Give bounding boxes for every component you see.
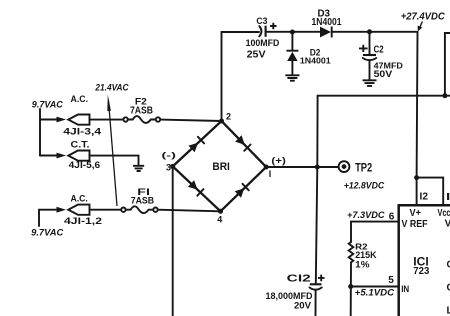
- node at D2: [290, 30, 295, 35]
- svg-text:7ASB: 7ASB: [131, 195, 155, 205]
- svg-text:25V: 25V: [247, 49, 266, 60]
- svg-text:L: L: [447, 305, 450, 316]
- negative bus from node 3 down off page: [172, 166, 174, 316]
- node at C2: [367, 29, 372, 34]
- svg-text:1%: 1%: [355, 260, 370, 271]
- wire C3 to D2 junction: [267, 31, 321, 33]
- node junction at TP2 branch: [315, 165, 320, 170]
- svg-text:100MFD: 100MFD: [246, 38, 280, 48]
- connector C.T. 4J1-5,6: [68, 140, 100, 171]
- wire fuse F1 to bridge node 4: [158, 210, 221, 212]
- wire to C.T. connector with arrow: [40, 153, 66, 159]
- svg-text:4JI-1,2: 4JI-1,2: [64, 216, 102, 226]
- svg-text:V: V: [445, 218, 450, 229]
- node 3: [162, 150, 177, 172]
- svg-text:+12.8VDC: +12.8VDC: [344, 181, 385, 191]
- svg-text:4JI-5,6: 4JI-5,6: [69, 160, 101, 170]
- diode D2 1N4001: [286, 34, 331, 74]
- ground (C2): [363, 80, 377, 86]
- svg-text:(-): (-): [162, 150, 177, 160]
- node 1: [264, 155, 286, 179]
- svg-text:50V: 50V: [374, 69, 393, 79]
- svg-text:II: II: [446, 192, 450, 203]
- capacitor C2 47MFD 50V: [359, 34, 403, 80]
- svg-text:CI2: CI2: [287, 274, 312, 285]
- label 9.7VAC top: [32, 100, 63, 110]
- wire node 2 riser to top rail: [222, 32, 260, 121]
- label +5.1VDC: [355, 288, 395, 299]
- wire connector to fuse F1: [90, 209, 122, 211]
- node at pin 12 branch: [414, 175, 419, 180]
- svg-text:C3: C3: [256, 16, 267, 26]
- svg-text:723: 723: [413, 265, 429, 277]
- wire 12.8V horizontal rail: [318, 95, 450, 97]
- ground (D2): [285, 75, 299, 80]
- svg-text:C2: C2: [374, 45, 384, 56]
- svg-text:+27.4VDC: +27.4VDC: [401, 12, 446, 23]
- svg-text:9.7VAC: 9.7VAC: [32, 100, 63, 110]
- wire pin 11 stub: [417, 178, 450, 205]
- svg-text:BRI: BRI: [212, 161, 230, 173]
- wire vertical from 9.7VAC top: [39, 109, 41, 156]
- svg-text:C: C: [447, 282, 450, 293]
- svg-text:C: C: [447, 260, 450, 271]
- svg-text:A.C.: A.C.: [71, 193, 88, 204]
- diode D3 1N4001: [312, 8, 343, 37]
- IC U1 box (IC1 723): [398, 204, 450, 316]
- wire R2 to pin 5 node: [350, 262, 352, 316]
- bridge diode arm 3-2: [188, 137, 204, 152]
- svg-text:IN: IN: [401, 284, 409, 295]
- node 4: [217, 209, 223, 225]
- wire fuse F2 to bridge node 2: [160, 120, 221, 121]
- capacitor C12 18,000MFD 20V: [266, 274, 325, 316]
- ground (C.T.): [133, 166, 144, 171]
- wire 12.8V rail down to C12: [316, 96, 318, 284]
- svg-text:1N4001: 1N4001: [312, 17, 343, 28]
- fuse F2 7ASB: [123, 96, 160, 123]
- wire C.T. to ground: [90, 156, 139, 165]
- wire to A.C. connector with arrow: [40, 117, 66, 123]
- node on 12.8V rail: [442, 93, 447, 98]
- bridge diode arm 3-4: [188, 180, 204, 196]
- svg-text:6: 6: [389, 211, 395, 222]
- connector A.C. 4J1-3,4: [63, 94, 102, 136]
- wire from 9.7VAC bottom: [39, 207, 66, 226]
- svg-text:C.T.: C.T.: [71, 140, 90, 151]
- svg-text:+7.3VDC: +7.3VDC: [347, 210, 385, 220]
- wire pin 5 IN: [351, 275, 398, 286]
- svg-text:I: I: [269, 169, 272, 179]
- svg-text:TP2: TP2: [355, 160, 372, 174]
- svg-text:2: 2: [226, 111, 231, 121]
- node at pin 5: [348, 284, 353, 289]
- wire pin 6 V REF: [351, 211, 398, 242]
- capacitor C3 100MFD 25V: [246, 16, 280, 60]
- label +12.8VDC: [344, 181, 385, 191]
- test point TP2: [339, 160, 373, 174]
- label 9.7VAC bottom: [31, 228, 63, 238]
- svg-text:I2: I2: [420, 191, 429, 202]
- svg-text:9.7VAC: 9.7VAC: [31, 228, 63, 238]
- wire C2 junction to +27.4 corner: [370, 31, 418, 33]
- resistor R2 2.15K 1%: [349, 242, 377, 271]
- bridge diode arm 4-1: [235, 184, 249, 198]
- wire node 1 to TP2: [266, 166, 338, 168]
- wire +27.4 rail down right side: [416, 32, 419, 178]
- node 2: [219, 111, 231, 123]
- svg-text:7ASB: 7ASB: [130, 106, 153, 117]
- svg-text:5: 5: [388, 275, 394, 286]
- svg-text:V+: V+: [410, 207, 422, 219]
- svg-text:+5.1VDC: +5.1VDC: [355, 288, 395, 299]
- bridge diode arm 2-1: [235, 135, 250, 151]
- label +27.4VDC with arrow: [401, 12, 446, 32]
- wire D3 to C2 junction: [333, 31, 370, 33]
- svg-text:(+): (+): [271, 155, 285, 166]
- svg-text:4: 4: [217, 214, 222, 224]
- wire top-right off-page bracket: [445, 33, 450, 96]
- svg-text:V REF: V REF: [402, 219, 428, 230]
- bridge rectifier BR1: [173, 121, 267, 211]
- label +7.3VDC: [347, 210, 385, 220]
- label 21.4VAC with arrow: [95, 82, 129, 206]
- svg-text:20V: 20V: [294, 300, 312, 310]
- wire pin 12 stub: [417, 178, 429, 205]
- svg-text:4JI-3,4: 4JI-3,4: [63, 126, 102, 136]
- wire connector to fuse F2: [90, 119, 124, 121]
- connector A.C. 4J1-1,2: [64, 193, 102, 226]
- svg-text:3: 3: [166, 162, 171, 172]
- svg-text:1N4001: 1N4001: [300, 56, 331, 66]
- fuse F1 7ASB: [121, 187, 157, 213]
- svg-text:21.4VAC: 21.4VAC: [95, 82, 129, 92]
- svg-text:A.C.: A.C.: [71, 94, 89, 105]
